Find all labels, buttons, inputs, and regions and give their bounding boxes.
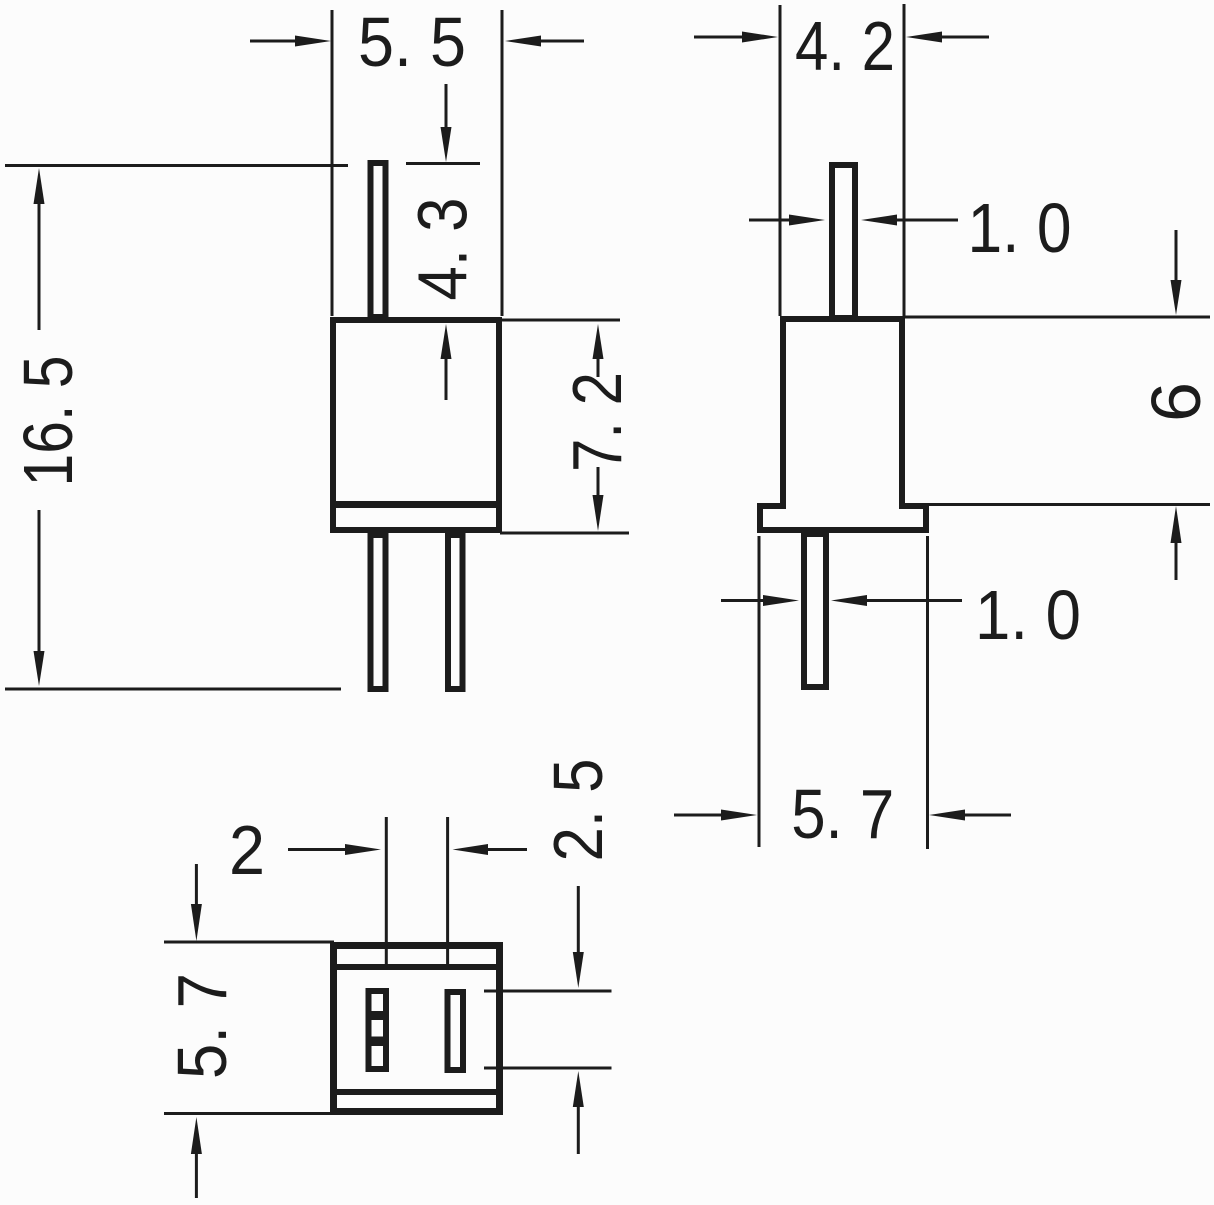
dim 7.2 top extension line [500,319,620,322]
dim 2.5 top arrow [577,886,580,953]
bottom view left slot dash 1 [372,1011,384,1020]
front view body [333,320,499,530]
svg-text:16. 5: 16. 5 [9,356,87,487]
bottom view left slot [369,991,387,1069]
dim 16.5 upper arrow [38,203,41,330]
bottom view inner bottom line [334,1089,500,1095]
dim 5.5 left extension line [331,10,334,316]
dim 16.5 top extension line [5,164,348,167]
dim 5.7 (bottom) top arrow [195,864,198,905]
dim 2 right arrow [488,848,527,851]
svg-text:5. 5: 5. 5 [358,3,466,81]
dim 2 left extension line [385,817,388,967]
dim 4.3 top arrow [445,84,448,130]
bottom view inner top line [334,964,500,970]
svg-text:2: 2 [229,811,265,889]
bottom view outer box [334,946,500,1112]
svg-text:1. 0: 1. 0 [968,189,1072,267]
dim 4.2 left arrow [694,36,744,39]
svg-text:2. 5: 2. 5 [539,759,617,862]
dim 4.2 right extension line [903,4,906,316]
bottom view left slot dash 2 [372,1037,384,1047]
dim 2 left arrow [288,848,345,851]
svg-text:7. 2: 7. 2 [558,372,636,472]
dim 2.5 bottom extension line [484,1067,612,1070]
dim 5.7 (bottom) top extension line [164,941,334,944]
side view body with flange outline [760,319,926,530]
dim 1.0 (bottom) left arrow [721,599,763,602]
dim 7.2 upper arrow [597,357,600,377]
svg-text:6: 6 [1137,382,1214,422]
front view bottom-right pin [448,535,463,689]
dim 5.5 left arrow [250,40,298,43]
dim 5.7 (side) left extension line [758,536,761,847]
dim 1.0 (top) right arrow [897,219,958,222]
dim 2.5 top extension line [484,990,612,993]
front view top pin [371,163,386,317]
dim 7.2 bottom extension line [500,532,629,535]
dim 1.0 (bottom) right arrow [867,599,962,602]
dim 6 bottom arrow [1175,542,1178,580]
dim 2.5 bottom arrow [577,1106,580,1154]
side view top pin [832,165,855,318]
dim 16.5 lower arrow [38,510,41,652]
dim 5.5 right arrow [540,40,584,43]
dim 5.7 (side) left arrow [674,814,721,817]
dim 5.7 (bottom) bottom arrow [195,1153,198,1198]
dim 16.5 bottom extension line [5,688,341,691]
dim 6 top arrow [1175,230,1178,281]
dim 4.2 right arrow [942,36,989,39]
svg-text:1. 0: 1. 0 [975,576,1081,654]
dim 4.2 left extension line [779,5,782,316]
dim 1.0 (top) left arrow [749,219,789,222]
svg-text:4. 3: 4. 3 [404,198,482,301]
svg-text:5. 7: 5. 7 [163,973,241,1079]
dim 6 top extension line [905,316,1210,319]
dim 4.3 bottom arrow [445,358,448,400]
dim 2 right extension line [446,817,449,967]
dim 5.5 right extension line [501,10,504,316]
side view bottom pin [804,534,826,687]
dim 5.7 (bottom) bottom extension line [164,1112,334,1115]
svg-text:5. 7: 5. 7 [791,775,894,853]
dim 6 bottom extension line [929,503,1210,506]
dim 4.3 top tick [406,162,480,165]
dim 5.7 (side) right arrow [965,814,1011,817]
dim 5.7 (side) right extension line [926,536,929,849]
dim 7.2 lower arrow [597,467,600,497]
svg-text:4. 2: 4. 2 [795,7,895,85]
bottom view right slot [448,992,464,1070]
front view bottom-left pin [371,535,386,689]
front view bottom seam line [330,501,502,508]
